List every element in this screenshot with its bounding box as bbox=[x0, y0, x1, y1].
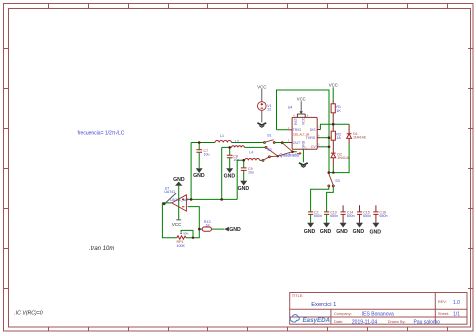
wire node to R2 top bbox=[332, 124, 334, 131]
svg-text:1N4148: 1N4148 bbox=[353, 136, 366, 140]
wire D1 top to node rail bbox=[348, 124, 350, 134]
wire L4 out to switch contact bbox=[260, 159, 263, 161]
wire quadrada node to port bbox=[292, 151, 296, 153]
wire THRS to vertical bbox=[320, 137, 329, 139]
resistor R1 bbox=[331, 104, 341, 113]
wire D1 bottom to bottom rail bbox=[348, 138, 350, 143]
svg-text:Drawn By:: Drawn By: bbox=[388, 319, 406, 324]
svg-text:CV: CV bbox=[311, 145, 317, 149]
capacitor C7 bbox=[196, 149, 209, 157]
svg-text:GND: GND bbox=[224, 173, 236, 179]
wire main rail left corner down to opamp + input bbox=[191, 143, 215, 200]
svg-text:GND: GND bbox=[193, 173, 205, 179]
svg-text:100K: 100K bbox=[177, 244, 186, 248]
svg-text:REV:: REV: bbox=[438, 299, 447, 304]
svg-text:TRIG: TRIG bbox=[293, 128, 302, 132]
svg-text:GND: GND bbox=[229, 227, 241, 233]
wire L2 input rail bbox=[222, 147, 232, 199]
svg-text:VCC: VCC bbox=[302, 117, 306, 125]
capacitor C14 bbox=[336, 205, 355, 235]
wire VCC label to IC power pins bbox=[297, 101, 305, 114]
junction node S3 common bbox=[328, 171, 331, 174]
title block bbox=[290, 293, 467, 326]
svg-text:GND: GND bbox=[370, 229, 382, 235]
VCC under op-amp bbox=[172, 220, 182, 227]
wire C7 bottom to gnd bbox=[198, 152, 200, 168]
wire C9 top stub bbox=[244, 160, 245, 168]
svg-text:10u: 10u bbox=[233, 158, 239, 162]
svg-text:GND: GND bbox=[336, 229, 348, 235]
pin 4 RST stub bbox=[296, 114, 298, 117]
border ticks left bbox=[4, 49, 9, 289]
title block frame bbox=[290, 293, 467, 325]
wire S1 right contact to OUT pin bbox=[275, 142, 288, 144]
svg-text:1K: 1K bbox=[336, 109, 341, 113]
svg-text:10u: 10u bbox=[204, 153, 210, 157]
wire R13 left stub bbox=[199, 228, 202, 230]
ground flag under 555 bbox=[299, 163, 308, 167]
svg-text:Sheet:: Sheet: bbox=[438, 311, 449, 316]
ground flag under V1 bbox=[257, 123, 266, 127]
junction node CV bbox=[328, 146, 331, 149]
junction node D2 bottom bbox=[332, 171, 334, 173]
wire DIS to R1 node and D1 bbox=[320, 124, 349, 129]
wire D2 bottom to bottom node bbox=[332, 158, 334, 167]
junction node C8 bbox=[228, 146, 231, 149]
svg-text:650n: 650n bbox=[363, 214, 371, 218]
wire S3 left contact to C2 bbox=[311, 187, 329, 212]
wire VCC to R1 top bbox=[332, 87, 334, 100]
inductor L1 bbox=[215, 134, 231, 143]
svg-text:650n: 650n bbox=[347, 214, 355, 218]
border ticks right bbox=[468, 49, 473, 289]
wire C8 top stub bbox=[229, 147, 231, 155]
resistor R2 bbox=[331, 131, 341, 140]
svg-text:1A: 1A bbox=[336, 136, 341, 140]
wire R1 bottom to node bbox=[332, 113, 334, 124]
wire L4 input node rail bbox=[237, 160, 245, 199]
svg-text:L2: L2 bbox=[235, 140, 239, 144]
wire IC gnd pin down bbox=[302, 149, 304, 162]
junction node R1/DIS/D1 bbox=[332, 123, 335, 126]
junction node THRS bbox=[328, 136, 331, 139]
wire top link TRIG to THRS/CV vertical bbox=[277, 90, 330, 173]
svg-text:GND: GND bbox=[304, 229, 316, 235]
pin 2 TRIG stub bbox=[288, 129, 292, 131]
svg-text:IES Bonanova: IES Bonanova bbox=[362, 312, 394, 318]
junction node C9/L4 bbox=[242, 159, 245, 162]
svg-text:Pau salomo: Pau salomo bbox=[414, 320, 441, 326]
ground under C9 bbox=[238, 181, 250, 192]
wire S3 right contact to C10 bbox=[327, 187, 334, 212]
junction node plus input left bbox=[190, 198, 193, 201]
capacitor C2 bbox=[304, 210, 322, 235]
capacitor C10 bbox=[320, 210, 339, 235]
svg-text:S3: S3 bbox=[335, 179, 339, 183]
wire C7 top stub bbox=[198, 143, 200, 150]
capacitor C8 bbox=[227, 154, 240, 162]
junction node switch mid bbox=[277, 155, 279, 157]
border ticks bottom bbox=[49, 327, 448, 331]
svg-text:GND: GND bbox=[353, 229, 365, 235]
svg-text:L4: L4 bbox=[249, 151, 253, 155]
op-amp U7 bbox=[164, 186, 189, 211]
junction node RP1 right bbox=[192, 237, 194, 239]
svg-text:2019-11-04: 2019-11-04 bbox=[352, 320, 377, 326]
svg-text:650n: 650n bbox=[380, 214, 388, 218]
svg-text:UA741: UA741 bbox=[164, 190, 175, 194]
junction node C7/rail bbox=[198, 141, 201, 144]
ground under C8 bbox=[224, 168, 236, 179]
svg-text:frecuencia= 1/2π√LC: frecuencia= 1/2π√LC bbox=[78, 130, 125, 137]
junction node R13 left bbox=[198, 228, 201, 231]
EasyEDA logo bbox=[290, 315, 330, 324]
switch S5 from L4 bbox=[262, 152, 292, 162]
svg-text:DIS: DIS bbox=[310, 128, 317, 132]
svg-text:Exercici 1: Exercici 1 bbox=[311, 302, 336, 308]
svg-text:EasyEDA: EasyEDA bbox=[303, 317, 331, 324]
capacitor C9 bbox=[241, 167, 254, 175]
svg-text:VCC: VCC bbox=[297, 97, 306, 102]
probe arrow at op-amp output bbox=[163, 193, 176, 205]
svg-text:RST: RST bbox=[294, 117, 298, 125]
resistor R13 bbox=[202, 220, 211, 231]
junction node quadrada bbox=[291, 150, 294, 153]
wire VCC to V1 top bbox=[261, 89, 263, 102]
ground above op-amp bbox=[173, 177, 185, 186]
svg-text:555_ALT_08: 555_ALT_08 bbox=[293, 133, 309, 137]
svg-text:650n: 650n bbox=[314, 214, 322, 218]
capacitor C15 bbox=[353, 205, 372, 235]
svg-text:VCC: VCC bbox=[172, 222, 182, 227]
555 timer U4 bbox=[288, 97, 321, 150]
inductor L4 bbox=[245, 151, 260, 161]
wire V1 bottom to gnd bbox=[261, 110, 263, 122]
pin 5 CV stub bbox=[317, 146, 320, 148]
svg-text:VCC: VCC bbox=[257, 85, 266, 90]
svg-text:12: 12 bbox=[267, 108, 271, 112]
pin 3 OUT stub bbox=[288, 142, 292, 144]
inductor L2 bbox=[232, 140, 245, 148]
wire L2 out to switch S2 contact bbox=[244, 146, 265, 148]
svg-text:.tran 10m: .tran 10m bbox=[89, 246, 114, 252]
svg-text:OUT: OUT bbox=[293, 141, 301, 145]
svg-text:10u: 10u bbox=[248, 171, 254, 175]
svg-text:1N4148: 1N4148 bbox=[337, 156, 350, 160]
diode D2 bbox=[331, 153, 350, 161]
svg-text:650n: 650n bbox=[330, 214, 338, 218]
svg-text:1/1: 1/1 bbox=[453, 312, 460, 318]
svg-text:S2: S2 bbox=[267, 148, 271, 152]
wire opamp plus input rail bbox=[187, 198, 238, 200]
svg-text:U4: U4 bbox=[288, 106, 293, 110]
pin 7 DIS stub bbox=[317, 129, 320, 131]
junction node plus input right bbox=[220, 198, 223, 201]
svg-text:50%: 50% bbox=[183, 231, 189, 235]
svg-text:TITLE:: TITLE: bbox=[292, 293, 304, 298]
wire opamp output loop left bbox=[162, 203, 176, 238]
wire C8 bottom to gnd bbox=[229, 158, 231, 168]
svg-text:GND: GND bbox=[238, 186, 250, 192]
svg-text:Company:: Company: bbox=[334, 311, 352, 316]
ground right of R13 bbox=[224, 227, 241, 233]
switch S3 bbox=[328, 174, 340, 187]
pin 6 THRS stub bbox=[317, 137, 320, 139]
svg-text:VCC: VCC bbox=[329, 83, 338, 88]
svg-text:1K: 1K bbox=[206, 224, 211, 228]
switch S1 bbox=[264, 134, 276, 144]
svg-text:.IC V(RC)=0: .IC V(RC)=0 bbox=[14, 311, 43, 317]
wire C9 bottom to gnd bbox=[243, 171, 245, 181]
potentiometer RP1 bbox=[177, 231, 190, 248]
capacitor C16 bbox=[370, 205, 388, 235]
switch S2 blade from OUT wire bbox=[281, 142, 292, 152]
wire RP1 right to R13 node bbox=[186, 207, 199, 238]
wire R2 bottom to D2 top bbox=[332, 140, 334, 153]
svg-text:UA741_ALT: UA741_ALT bbox=[170, 198, 190, 202]
svg-text:Quadrada: Quadrada bbox=[279, 153, 299, 158]
switch S2 middle from L2 bbox=[265, 147, 277, 156]
svg-text:GND: GND bbox=[320, 229, 332, 235]
wire rail after L1 to switch S1 bbox=[232, 142, 264, 144]
svg-text:Date:: Date: bbox=[334, 319, 343, 324]
wire CV to vertical bbox=[320, 146, 329, 148]
diode D1 bbox=[347, 132, 366, 140]
svg-text:1.0: 1.0 bbox=[453, 300, 460, 306]
voltage source V1 bbox=[257, 85, 271, 112]
net port Quadrada bbox=[279, 152, 301, 157]
wire RP1 wiper loop bbox=[181, 230, 193, 237]
wire opamp vplus gnd line bbox=[178, 186, 180, 220]
pin 8 VCC stub bbox=[304, 114, 306, 117]
wire R13 right to gnd bbox=[211, 228, 224, 230]
ground under C7 bbox=[193, 168, 205, 179]
svg-text:L1: L1 bbox=[220, 134, 224, 138]
svg-text:S1: S1 bbox=[267, 134, 271, 138]
